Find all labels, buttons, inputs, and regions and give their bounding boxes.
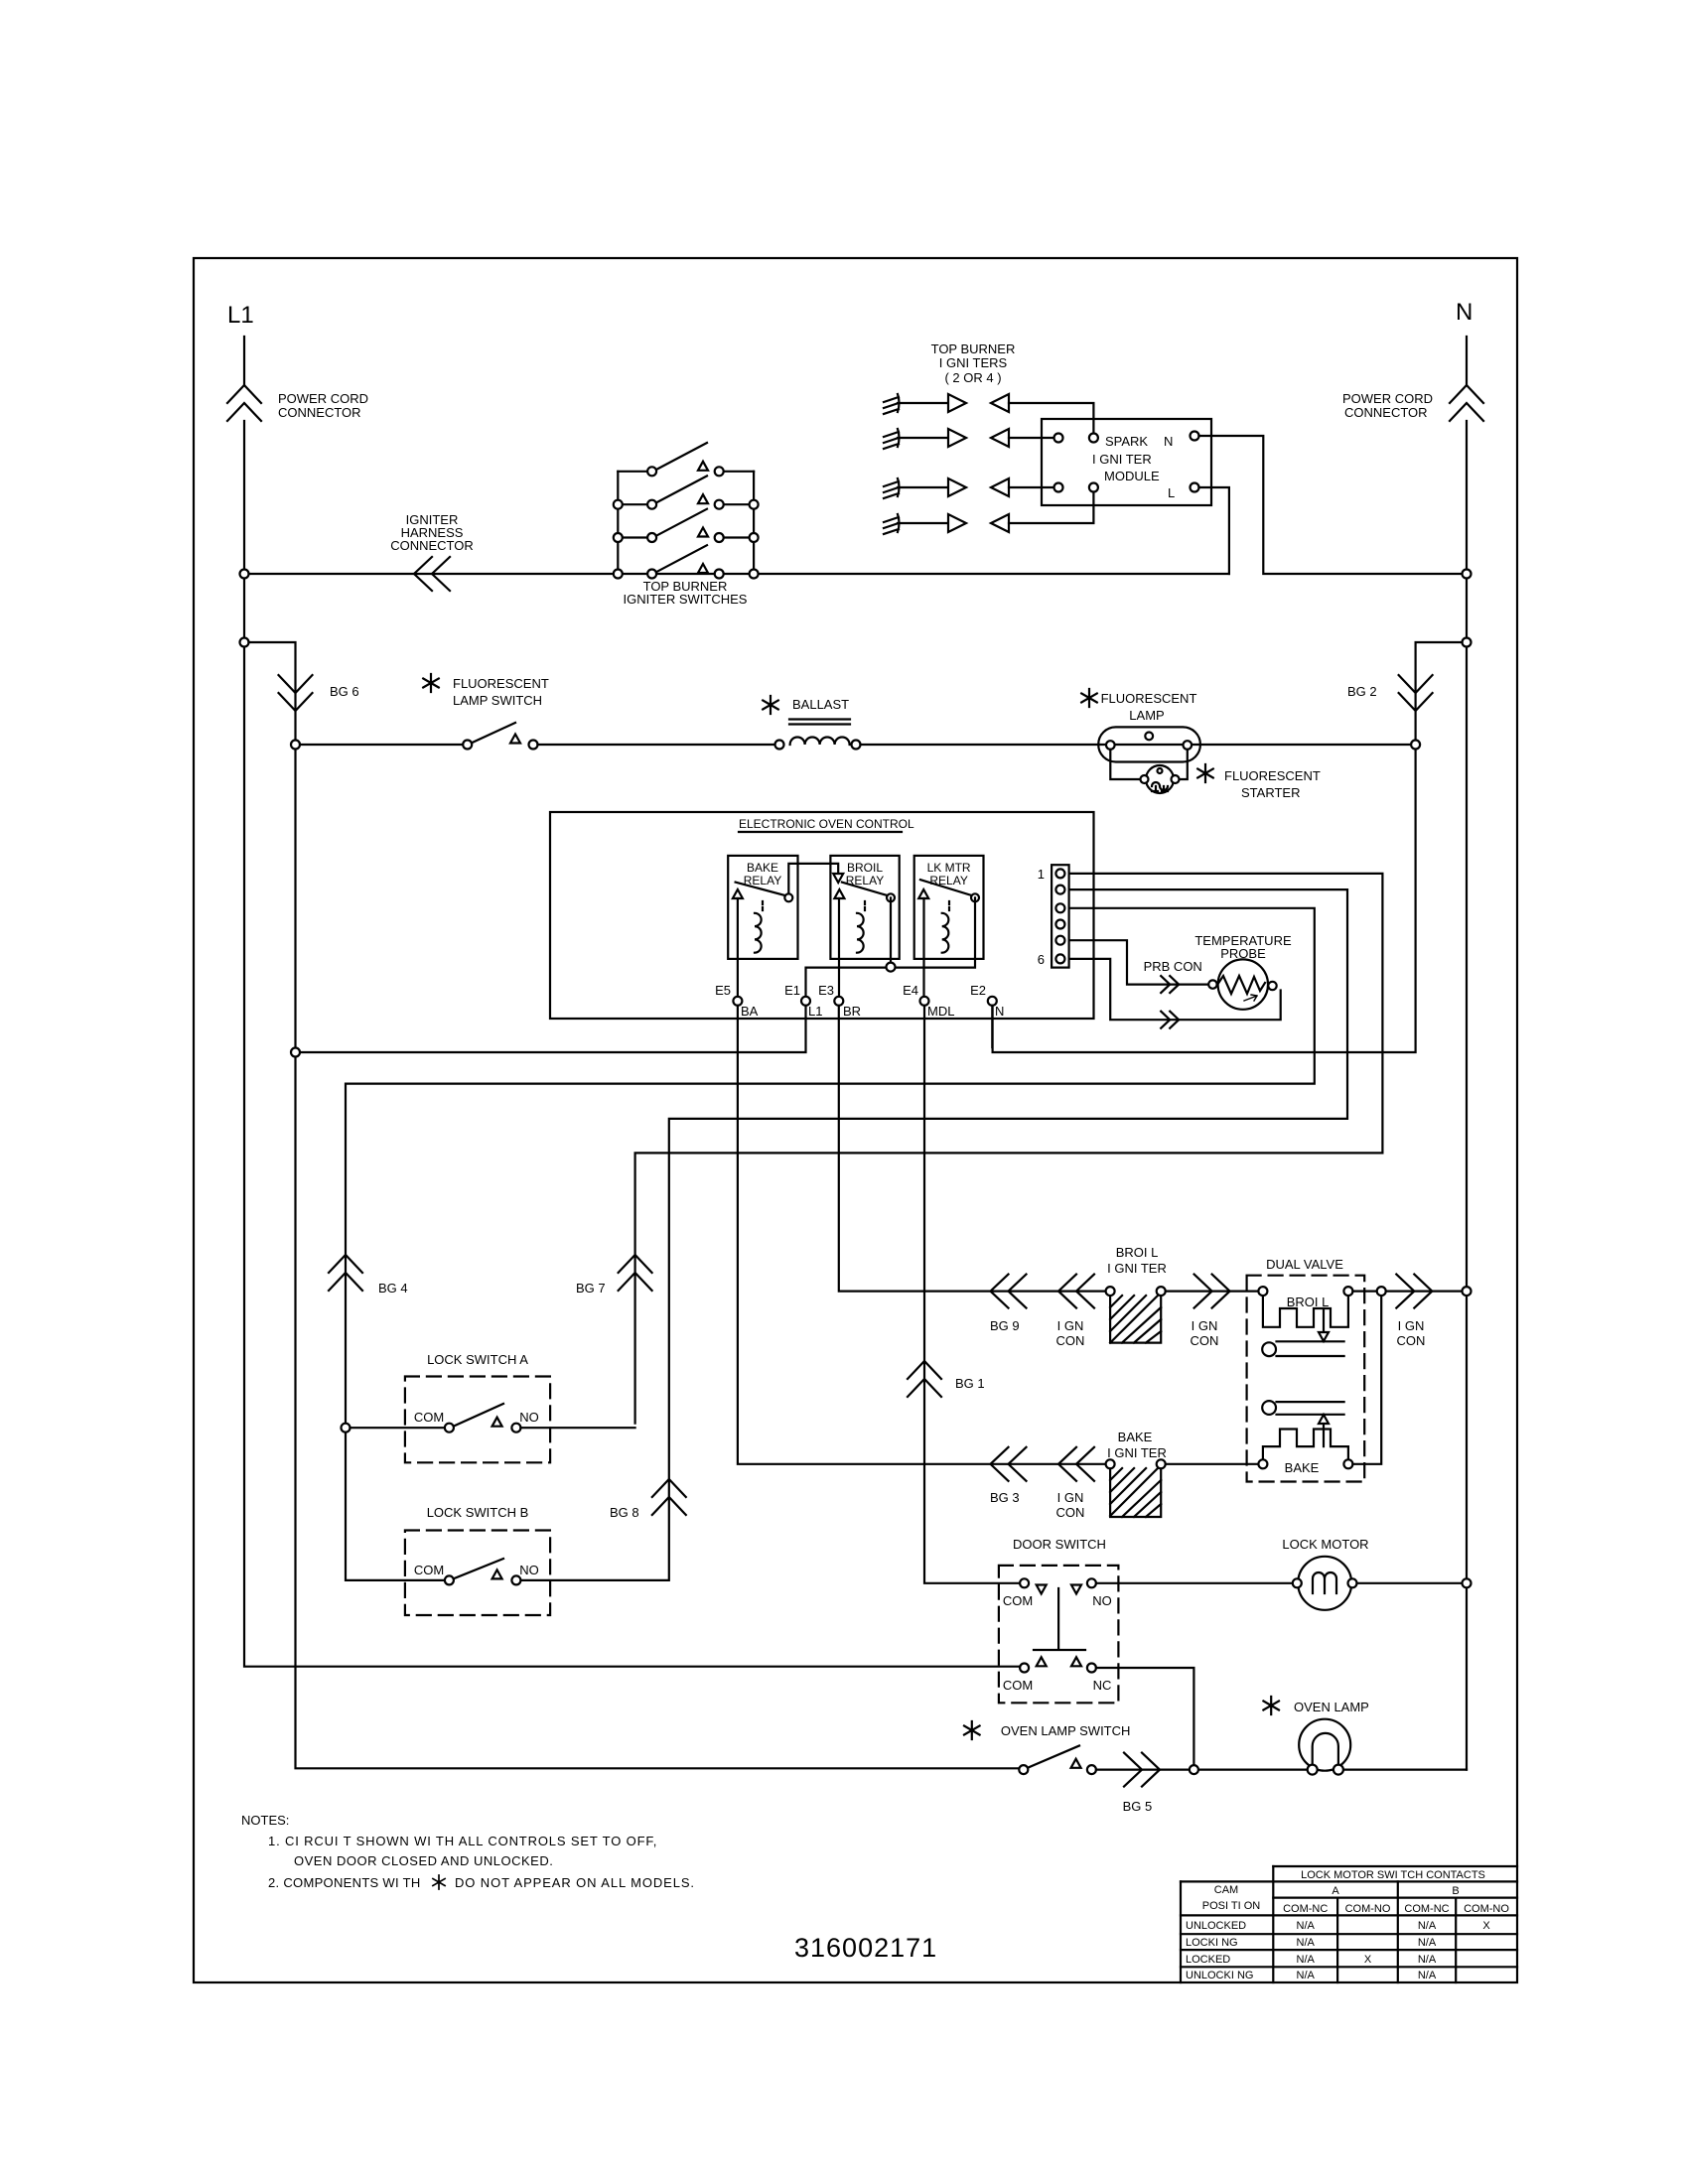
terminal E3 <box>834 997 843 1006</box>
svg-text:N/A: N/A <box>1297 1920 1316 1932</box>
svg-text:L1: L1 <box>227 302 254 329</box>
wire pin6 probe return <box>1069 959 1281 1020</box>
connector IGN CON valve <box>1396 1275 1432 1308</box>
svg-text:CON: CON <box>1397 1333 1426 1348</box>
svg-text:UNLOCKI NG: UNLOCKI NG <box>1186 1970 1253 1981</box>
terminal E5 <box>733 997 742 1006</box>
svg-text:CON: CON <box>1056 1333 1085 1348</box>
wire module L to main bus <box>1199 487 1229 574</box>
svg-text:BG 6: BG 6 <box>330 684 359 699</box>
svg-text:CONNECTOR: CONNECTOR <box>278 405 361 420</box>
wire IGN CON to N rail <box>1386 1290 1463 1292</box>
svg-text:UNLOCKED: UNLOCKED <box>1186 1920 1246 1932</box>
relay K3 lk mtr relay <box>914 856 984 959</box>
svg-text:BG 9: BG 9 <box>990 1318 1020 1333</box>
svg-text:N: N <box>995 1004 1004 1019</box>
svg-text:COM: COM <box>1003 1593 1033 1608</box>
svg-text:N/A: N/A <box>1418 1920 1437 1932</box>
svg-text:COM-NC: COM-NC <box>1283 1903 1328 1915</box>
svg-text:SPARK: SPARK <box>1105 434 1148 449</box>
wire bake igniter to valve <box>1166 1463 1259 1465</box>
asterisk in note 2 <box>433 1875 445 1889</box>
lock switch B <box>405 1505 550 1615</box>
wire relay E4 riser from lk mtr relay <box>922 898 924 997</box>
fluorescent lamp switch <box>423 674 549 750</box>
wire E4 riser to door switch <box>924 1006 1020 1583</box>
dual valve <box>1247 1257 1365 1482</box>
svg-text:COM-NO: COM-NO <box>1464 1903 1509 1915</box>
svg-text:I GNI TER: I GNI TER <box>1092 452 1152 467</box>
svg-text:ELECTRONIC OVEN CONTROL: ELECTRONIC OVEN CONTROL <box>739 817 914 831</box>
svg-text:E2: E2 <box>970 983 986 998</box>
svg-text:CON: CON <box>1056 1505 1085 1520</box>
svg-text:OVEN LAMP: OVEN LAMP <box>1294 1700 1369 1714</box>
node broil common junction <box>887 963 896 972</box>
wire E2 to N bus <box>991 1006 993 1047</box>
svg-text:POWER CORD: POWER CORD <box>278 391 368 406</box>
svg-text:E1: E1 <box>784 983 800 998</box>
wire E3 riser to broil row <box>839 1006 1106 1292</box>
svg-text:CAM: CAM <box>1214 1884 1238 1896</box>
node valve feed junction <box>1377 1287 1386 1296</box>
svg-text:I GN: I GN <box>1057 1490 1084 1505</box>
svg-text:BALLAST: BALLAST <box>792 697 849 712</box>
svg-text:316002171: 316002171 <box>794 1933 937 1963</box>
svg-text:LOCK MOTOR SWI TCH CONTACTS: LOCK MOTOR SWI TCH CONTACTS <box>1301 1869 1485 1881</box>
fluorescent starter <box>1141 764 1321 800</box>
node N rail BG2 junction <box>1463 638 1472 647</box>
svg-text:BG 3: BG 3 <box>990 1490 1020 1505</box>
svg-text:NO: NO <box>1092 1593 1112 1608</box>
svg-text:PROBE: PROBE <box>1220 946 1266 961</box>
temperature probe RT1 <box>1194 933 1292 1010</box>
svg-text:E5: E5 <box>715 983 731 998</box>
oven lamp switch <box>964 1721 1130 1774</box>
svg-text:BR: BR <box>843 1004 861 1019</box>
wire door NO to lock motor <box>1096 1582 1293 1584</box>
ballast <box>763 696 860 750</box>
wire relay E3 riser from broil relay <box>838 898 840 997</box>
wire right bus <box>753 472 755 574</box>
oven lamp DS1 <box>1263 1697 1368 1775</box>
border frame <box>194 258 1517 1982</box>
svg-text:LOCK SWITCH B: LOCK SWITCH B <box>427 1505 529 1520</box>
wire L1 rail vertical <box>244 337 1025 1667</box>
lock switch A <box>351 1352 635 1462</box>
wire valve broil to IGN CON right <box>1352 1290 1376 1292</box>
node BG6 bus y1060 junction <box>291 1048 300 1057</box>
svg-text:TOP BURNER: TOP BURNER <box>931 341 1016 356</box>
svg-text:OVEN DOOR CLOSED AND UNLOC: OVEN DOOR CLOSED AND UNLOCKED. <box>294 1853 553 1868</box>
svg-text:CON: CON <box>1191 1333 1219 1348</box>
svg-text:2. COMPONENTS WI TH: 2. COMPONENTS WI TH <box>268 1875 421 1890</box>
switch row 3 <box>618 536 754 538</box>
svg-text:BG 8: BG 8 <box>610 1505 639 1520</box>
svg-text:POWER CORD: POWER CORD <box>1342 391 1433 406</box>
svg-text:6: 6 <box>1038 952 1045 967</box>
svg-text:I GN: I GN <box>1192 1318 1218 1333</box>
svg-text:I GNI TER: I GNI TER <box>1107 1261 1167 1276</box>
connector IGN CON broil right <box>1194 1275 1230 1308</box>
connector PRB CON <box>1161 976 1179 993</box>
wire BG2 branch <box>993 642 1463 1052</box>
wire pin2 to BG8 lock switch B NO <box>520 889 1347 1580</box>
svg-text:N/A: N/A <box>1418 1954 1437 1966</box>
svg-text:BG 5: BG 5 <box>1123 1799 1153 1814</box>
connector BG5 <box>1124 1753 1160 1787</box>
igniter 2 <box>884 429 1054 449</box>
svg-text:DO NOT APPEAR ON ALL MODE: DO NOT APPEAR ON ALL MODELS. <box>455 1875 695 1890</box>
wire E1 to L1 feed bus y1060 <box>296 1006 806 1052</box>
svg-text:1: 1 <box>1038 867 1045 882</box>
node lock motor N rail junction <box>1463 1578 1472 1587</box>
connector BG6 <box>279 675 313 711</box>
connector BG8 <box>652 1479 686 1515</box>
svg-text:I GN: I GN <box>1057 1318 1084 1333</box>
svg-text:BROIL: BROIL <box>847 861 883 875</box>
svg-text:BG 7: BG 7 <box>576 1281 606 1296</box>
node lock switch A COM junction <box>342 1424 351 1433</box>
svg-text:NO: NO <box>519 1410 539 1425</box>
connector BG7 <box>619 1255 652 1291</box>
svg-text:NO: NO <box>519 1563 539 1577</box>
svg-text:LOCK SWITCH A: LOCK SWITCH A <box>427 1352 528 1367</box>
svg-text:DUAL VALVE: DUAL VALVE <box>1266 1257 1343 1272</box>
svg-text:A: A <box>1332 1885 1339 1897</box>
node L1 BG6 junction <box>240 638 249 647</box>
svg-text:X: X <box>1482 1920 1490 1932</box>
wire relay commons bus y974.6 <box>806 897 976 1006</box>
switch row 2 <box>618 503 754 505</box>
lock motor switch contacts table <box>1181 1866 1517 1982</box>
svg-text:IGNITER SWITCHES: IGNITER SWITCHES <box>624 592 748 607</box>
connector BG9 <box>991 1275 1027 1308</box>
svg-text:POSI TI ON: POSI TI ON <box>1202 1900 1261 1912</box>
svg-text:FLUORESCENT: FLUORESCENT <box>1224 768 1321 783</box>
terminal E2 <box>988 997 997 1006</box>
svg-text:I GNI TERS: I GNI TERS <box>939 355 1008 370</box>
igniter 1 <box>884 394 1093 433</box>
svg-text:1. CI RCUI T SHOWN WI TH A: 1. CI RCUI T SHOWN WI TH ALL CONTROLS SE… <box>268 1834 657 1848</box>
svg-text:COM: COM <box>414 1563 444 1577</box>
connector BG3 <box>991 1447 1027 1481</box>
connector IGN CON bake <box>1058 1447 1094 1481</box>
wire lock motor to N rail <box>1357 1582 1463 1584</box>
svg-text:( 2 OR 4 ): ( 2 OR 4 ) <box>944 370 1001 385</box>
connector BG4 <box>329 1255 362 1291</box>
svg-text:X: X <box>1364 1954 1372 1966</box>
igniter 3 <box>884 478 1054 498</box>
svg-text:BG 4: BG 4 <box>378 1281 408 1296</box>
wire igniter to valve broil <box>1166 1290 1259 1292</box>
electronic oven control box <box>550 812 1094 1019</box>
wire pin1 to BG7 lock switch A NO <box>635 874 1383 1424</box>
wire lock A COM vertical to lock B COM <box>346 1433 445 1580</box>
svg-text:BG 2: BG 2 <box>1347 684 1377 699</box>
svg-text:COM: COM <box>1003 1678 1033 1693</box>
wire pin3 to BG4 lock switch A COM <box>346 908 1315 1428</box>
svg-text:BG 1: BG 1 <box>955 1376 985 1391</box>
node broil row N rail junction <box>1463 1287 1472 1296</box>
svg-text:NOTES:: NOTES: <box>241 1813 289 1828</box>
broil igniter <box>1106 1245 1167 1343</box>
svg-text:LAMP: LAMP <box>1129 708 1164 723</box>
svg-text:L: L <box>1168 485 1175 500</box>
wire module N to N-rail <box>1199 436 1463 574</box>
svg-text:N: N <box>1164 434 1173 449</box>
svg-text:OVEN LAMP SWITCH: OVEN LAMP SWITCH <box>1001 1723 1131 1738</box>
connector J1 6-pin strip <box>1038 865 1069 967</box>
node oven lamp row junction <box>1190 1765 1198 1774</box>
wire lamp pins to starter <box>1110 750 1188 779</box>
svg-text:LOCKED: LOCKED <box>1186 1954 1230 1966</box>
svg-text:DOOR SWITCH: DOOR SWITCH <box>1013 1537 1106 1552</box>
svg-text:NC: NC <box>1093 1678 1112 1693</box>
svg-text:PRB CON: PRB CON <box>1144 959 1202 974</box>
svg-text:E3: E3 <box>818 983 834 998</box>
svg-text:I GNI TER: I GNI TER <box>1107 1445 1167 1460</box>
connector BG2 <box>1399 675 1433 711</box>
wire bake relay common link to broil relay <box>788 864 838 893</box>
svg-text:MDL: MDL <box>927 1004 954 1019</box>
svg-text:CONNECTOR: CONNECTOR <box>390 538 474 553</box>
switch row 4 on main bus <box>656 545 707 572</box>
svg-text:N/A: N/A <box>1418 1970 1437 1981</box>
svg-text:BAKE: BAKE <box>1118 1430 1153 1444</box>
wire EOC title underline <box>739 831 902 833</box>
wire BG6 branch <box>249 642 1020 1768</box>
svg-text:BAKE: BAKE <box>747 861 778 875</box>
svg-text:COM-NC: COM-NC <box>1404 1903 1449 1915</box>
node junction L1/main <box>240 570 249 579</box>
svg-text:COM-NO: COM-NO <box>1345 1903 1391 1915</box>
node N rail main junction <box>1463 570 1472 579</box>
igniter 4 <box>884 492 1093 534</box>
wire relay E5 riser from bake relay <box>737 898 739 997</box>
svg-text:E4: E4 <box>903 983 918 998</box>
wire pin5 to probe <box>1069 940 1209 984</box>
svg-text:L1: L1 <box>808 1004 822 1019</box>
svg-text:CONNECTOR: CONNECTOR <box>1344 405 1428 420</box>
svg-text:BA: BA <box>741 1004 759 1019</box>
relay K1 bake relay <box>728 856 797 959</box>
svg-text:N/A: N/A <box>1297 1954 1316 1966</box>
svg-text:MODULE: MODULE <box>1104 469 1160 483</box>
svg-text:LAMP SWITCH: LAMP SWITCH <box>453 693 542 708</box>
terminal E1 <box>801 997 810 1006</box>
spark igniter module U1 <box>1042 419 1211 505</box>
wire N rail vertical <box>1466 337 1468 1770</box>
wire E5 riser to bake row <box>738 1006 1106 1464</box>
power cord connector L1 <box>227 385 261 421</box>
svg-text:LK MTR: LK MTR <box>927 861 971 875</box>
node lamp row / BG2 rail junction <box>1411 741 1420 750</box>
svg-text:LOCK MOTOR: LOCK MOTOR <box>1282 1537 1368 1552</box>
igniter harness connector <box>414 557 450 591</box>
svg-text:N/A: N/A <box>1297 1937 1316 1949</box>
svg-text:N: N <box>1456 299 1473 326</box>
wire door NC to oven lamp row <box>1096 1668 1194 1765</box>
svg-text:BAKE: BAKE <box>1285 1460 1320 1475</box>
svg-text:COM: COM <box>414 1410 444 1425</box>
lock motor M1 <box>1282 1537 1368 1610</box>
power cord connector N <box>1450 385 1483 421</box>
wire fluorescent row <box>300 744 463 746</box>
svg-text:LOCKI NG: LOCKI NG <box>1186 1937 1238 1949</box>
wire valve bake link <box>1352 1296 1381 1464</box>
notes text <box>241 1813 695 1890</box>
wire left bus <box>617 472 619 574</box>
svg-text:B: B <box>1452 1885 1459 1897</box>
wire ballast to lamp row <box>861 744 1412 746</box>
svg-text:I GN: I GN <box>1398 1318 1425 1333</box>
wire main L1 bus y578 <box>244 573 1229 575</box>
connector IGN CON broil left <box>1058 1275 1094 1308</box>
node BG6/lamp row junction <box>291 741 300 750</box>
svg-text:BROI L: BROI L <box>1287 1295 1330 1309</box>
svg-text:FLUORESCENT: FLUORESCENT <box>1101 691 1197 706</box>
svg-text:N/A: N/A <box>1297 1970 1316 1981</box>
node bus junctions <box>614 500 623 509</box>
bake igniter <box>1106 1430 1167 1517</box>
wire oven lamp row <box>1096 1768 1467 1770</box>
fluorescent lamp <box>1081 689 1200 762</box>
top burner igniter switches block <box>614 443 759 607</box>
relay K2 broil relay <box>830 856 899 959</box>
svg-text:STARTER: STARTER <box>1241 785 1300 800</box>
connector BG1 <box>908 1361 941 1397</box>
door switch <box>999 1537 1119 1703</box>
svg-text:FLUORESCENT: FLUORESCENT <box>453 676 549 691</box>
svg-text:N/A: N/A <box>1418 1937 1437 1949</box>
svg-text:BROI L: BROI L <box>1116 1245 1159 1260</box>
wire switch to ballast <box>538 744 775 746</box>
switch row 1 <box>618 471 754 473</box>
terminal E4 <box>920 997 929 1006</box>
